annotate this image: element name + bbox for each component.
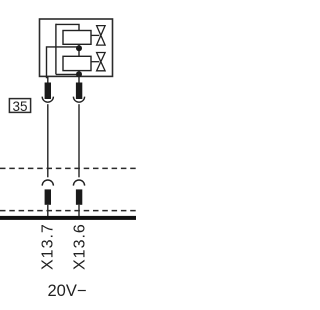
pin: right connector male pin xyxy=(76,83,82,100)
wire: left vertical run inside box xyxy=(55,24,57,75)
svg-text:X13.7: X13.7 xyxy=(40,223,57,270)
wire: bottom jog to coil 2 bottom xyxy=(56,73,79,75)
wire: right pin to bus xyxy=(78,205,80,218)
socket: left lower female cup (inverted) xyxy=(42,180,53,186)
wire: coil 2 to valve 2 xyxy=(91,61,100,63)
coil 2 (lower solenoid winding) xyxy=(63,56,91,70)
socket: right lower female cup (inverted) xyxy=(73,180,84,186)
pin: right lower male pin xyxy=(76,189,82,204)
pin: left lower male pin xyxy=(45,189,51,204)
dashed separator line (harness boundary) xyxy=(0,167,136,169)
wire: left harness run down xyxy=(47,104,49,177)
label: position number 35 box xyxy=(9,99,30,114)
valve symbol 1 (hourglass) xyxy=(97,26,106,45)
valve symbol 2 (hourglass) xyxy=(97,53,106,71)
wire: mid horizontal to left pin drop xyxy=(47,47,80,83)
wire: coil 2 bottom to right pin xyxy=(78,71,80,83)
node: junction dot coil1-bottom / mid wire xyxy=(76,45,82,51)
component box (solenoid valve unit outline) xyxy=(40,19,113,76)
socket: right connector female cup xyxy=(73,97,84,103)
svg-text:35: 35 xyxy=(12,99,27,114)
wire: coil 1 bottom through to coil 2 top xyxy=(78,44,80,56)
node: junction dot coil2-bottom / right pin xyxy=(76,71,82,77)
wire: left pin to bus xyxy=(47,205,49,218)
pin: left connector male pin xyxy=(45,83,51,100)
svg-text:20V−: 20V− xyxy=(48,282,87,300)
bus bar: 20V- supply rail xyxy=(0,216,136,220)
wire: right harness run down xyxy=(78,104,80,177)
wire: coil 1 top to left drop xyxy=(56,24,79,30)
wire: coil 1 to valve 1 xyxy=(91,34,100,36)
coil 1 (upper solenoid winding) xyxy=(63,31,91,45)
dashed separator line (above bus) xyxy=(0,210,136,212)
socket: left connector female cup xyxy=(42,97,53,103)
svg-text:X13.6: X13.6 xyxy=(72,223,89,270)
